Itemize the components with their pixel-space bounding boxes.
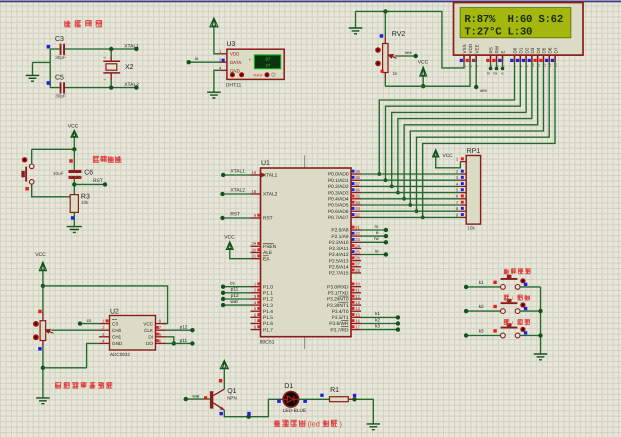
power arrow (U3) (210, 18, 218, 27)
svg-text:e: e (502, 72, 504, 76)
wire U3 GND to ground (214, 70, 220, 92)
U1 pin 39 P0.0/AD0 (351, 173, 361, 175)
wire VCC to button and C6 (32, 149, 75, 164)
svg-text:XTAL2: XTAL2 (263, 192, 278, 198)
svg-text:VDD: VDD (230, 52, 240, 57)
svg-text:P2.7/A15: P2.7/A15 (329, 271, 349, 277)
LCD display LM016L (454, 3, 584, 56)
svg-text:P1.2: P1.2 (263, 297, 273, 303)
U1 pin 23 P2.2/A10 (351, 241, 361, 243)
svg-text:DI: DI (148, 335, 153, 340)
svg-text:PSEN: PSEN (263, 244, 277, 250)
U1 pin 14 P3.4/T0 (351, 310, 361, 312)
U1 pin 38 P0.1/AD1 (351, 179, 361, 181)
junction at ground rail (383, 9, 387, 13)
U3 pin 2 DATA (220, 61, 227, 63)
U1 pin 6 P1.5 (251, 316, 261, 318)
U1 pin 7 P1.6 (251, 323, 261, 325)
svg-text:VSS: VSS (462, 44, 467, 53)
svg-text:k3: k3 (479, 328, 484, 333)
svg-text:P1.6: P1.6 (263, 321, 273, 327)
svg-text:27: 27 (265, 64, 271, 69)
svg-text:VCC: VCC (68, 123, 79, 129)
svg-text:P2.2/A10: P2.2/A10 (329, 240, 349, 246)
wire D6 to P0.6 (417, 62, 550, 211)
U1 pin 25 P2.4/A12 (351, 254, 361, 256)
wire P0.4 to RP1 pin 6 (361, 198, 460, 200)
U2 pin 8 VCC (156, 323, 167, 325)
svg-text:D7: D7 (553, 47, 558, 53)
svg-text:P1.4: P1.4 (263, 309, 273, 315)
wire VDD down to VCC rail (385, 62, 470, 86)
svg-text:P1.0: P1.0 (263, 284, 273, 290)
svg-text:P0.2/AD2: P0.2/AD2 (328, 184, 349, 190)
terminal k3 (P3.7) (361, 329, 398, 331)
svg-text:D4: D4 (536, 47, 541, 53)
U1 pin 11 P3.1/TXD (351, 292, 361, 294)
pot wiper to U2 CH0 (46, 330, 54, 334)
U1 pin 32 P0.7/AD7 (351, 216, 361, 218)
svg-text:RST: RST (93, 178, 103, 184)
U1 pin 2 P1.1 (251, 292, 261, 294)
svg-text:CH1: CH1 (112, 335, 122, 340)
svg-text:XTAL1: XTAL1 (124, 43, 139, 49)
svg-text:21: 21 (355, 225, 360, 230)
svg-text:): ) (340, 420, 342, 429)
RP1 pin 1 (460, 161, 466, 163)
svg-text:k1: k1 (375, 311, 380, 316)
U2 pin 7 CLK (156, 329, 167, 331)
push button k2 (466, 310, 500, 312)
svg-text:P3.5/T1: P3.5/T1 (332, 315, 349, 321)
svg-text:R1: R1 (330, 387, 339, 394)
svg-text:VDD: VDD (468, 43, 473, 53)
U1 pin 21 P2.0/A8 (351, 229, 361, 231)
svg-text:16: 16 (355, 318, 360, 323)
U1 pin 29 PSEN (251, 245, 261, 247)
svg-text:2: 2 (103, 57, 107, 59)
svg-text:28: 28 (355, 268, 360, 273)
U1 pin 31 EA (251, 258, 261, 260)
svg-text:DHT11: DHT11 (226, 83, 242, 89)
terminal p11 (P1.1) (223, 292, 250, 294)
svg-text:CH0: CH0 (112, 328, 122, 333)
wire P0.3 to RP1 pin 5 (361, 192, 460, 194)
svg-text:P1.5: P1.5 (263, 315, 273, 321)
svg-text:p12: p12 (231, 293, 239, 298)
svg-text:31: 31 (252, 254, 257, 259)
pot (humidity sensor) (42, 286, 44, 312)
svg-text:37: 37 (355, 181, 360, 186)
svg-text:D0: D0 (513, 47, 518, 53)
stray line above U1 (304, 155, 306, 168)
power arrow (Q1) (220, 360, 228, 368)
svg-text:38: 38 (355, 175, 360, 180)
svg-text:VCC: VCC (35, 252, 46, 258)
svg-text:P0.3/AD3: P0.3/AD3 (328, 190, 349, 196)
svg-text:ADC0832: ADC0832 (110, 352, 130, 357)
svg-text:vee: vee (480, 88, 488, 93)
wire R1 to ground (353, 399, 373, 423)
U1 pin 15 P3.5/T1 (351, 316, 361, 318)
wire U2 CLK to p12 terminal (166, 329, 192, 331)
svg-text:29: 29 (252, 241, 257, 246)
title 水泵模拟（led代替） (water pump sim) (274, 420, 306, 427)
wire D3 to P0.3 (398, 62, 532, 193)
svg-text:1k: 1k (393, 71, 399, 76)
svg-text:T:27°C L:30: T:27°C L:30 (464, 26, 532, 38)
svg-text:p12: p12 (180, 325, 188, 330)
svg-text:35: 35 (355, 194, 360, 199)
terminal io (P2.4) (361, 254, 386, 256)
U1 pin 30 ALE (251, 252, 261, 254)
svg-text:17: 17 (355, 325, 360, 330)
svg-text:GND: GND (112, 341, 123, 346)
U3 pin 4 GND (220, 69, 227, 71)
ground (reset section) (67, 227, 82, 233)
U1 pin 8 P1.7 (251, 329, 261, 331)
svg-text:D3: D3 (530, 47, 535, 53)
svg-text:80C51: 80C51 (260, 339, 275, 345)
svg-text:D1: D1 (519, 47, 524, 53)
svg-text:XTAL2: XTAL2 (230, 187, 245, 193)
svg-text:k3: k3 (375, 323, 380, 328)
svg-text:25: 25 (355, 249, 360, 254)
svg-text:P1.3: P1.3 (263, 303, 273, 309)
wire D5 to P0.5 (410, 62, 543, 205)
svg-text:DATA: DATA (230, 60, 241, 65)
U1 pin 9 RST (251, 217, 261, 219)
label for k2 (504, 295, 510, 301)
transistor Q1 NPN (210, 391, 213, 408)
U1 pin 33 P0.6/AD6 (351, 210, 361, 212)
svg-text:U1: U1 (261, 160, 270, 167)
terminals rs rw e below LCD (491, 62, 503, 69)
wire D7 to P0.7 (423, 62, 555, 217)
U1 pin 19 XTAL1 (251, 174, 261, 176)
svg-text:P2.6/A14: P2.6/A14 (329, 264, 349, 270)
svg-text:io: io (195, 56, 199, 61)
junction node at crystal bottom (109, 85, 113, 89)
svg-text:D5: D5 (542, 47, 547, 53)
svg-text:k2: k2 (375, 317, 380, 322)
wire D4 to P0.4 (404, 62, 538, 199)
svg-text:P0.7/AD7: P0.7/AD7 (328, 215, 349, 221)
svg-text:P3.4/T0: P3.4/T0 (332, 309, 349, 315)
wire D1 to P0.1 (386, 62, 521, 180)
svg-text:26: 26 (355, 256, 360, 261)
node marker (blue) below R3 (71, 216, 75, 220)
wire D2 to P0.2 (392, 62, 526, 186)
wire U2 DO to p11 terminal (166, 342, 192, 344)
U1 pin 3 P1.2 (251, 298, 261, 300)
U3 pin 1 VDD (220, 53, 227, 55)
svg-text:CLK: CLK (144, 328, 154, 333)
pot bottom to ground (42, 341, 44, 348)
svg-text:39: 39 (355, 169, 360, 174)
svg-text:%RH: %RH (253, 72, 262, 77)
svg-text:p11: p11 (180, 338, 188, 343)
push button k1 (466, 286, 500, 288)
terminal XTAL1 (134, 47, 138, 51)
svg-text:cs: cs (87, 318, 92, 323)
U1 pin 35 P0.4/AD4 (351, 198, 361, 200)
svg-text:X2: X2 (125, 64, 134, 71)
terminal io (U3 data) (189, 61, 220, 63)
terminal wat (P1.3) (223, 304, 250, 306)
label for k3 (504, 320, 509, 325)
svg-text:XTAL2: XTAL2 (124, 82, 139, 88)
wire Q1 emitter to D1 (224, 399, 283, 416)
ground (buttons) (534, 354, 548, 360)
svg-text:27: 27 (355, 262, 360, 267)
wire C3 right to XTAL1 terminal (65, 48, 136, 50)
svg-text:wat: wat (192, 394, 200, 399)
title 晶振电路 (crystal oscillator circuit) (64, 20, 102, 27)
title 湿度传感器模拟 (humidity sensor sim) (55, 382, 112, 388)
wire D1 to R1 (299, 398, 330, 400)
svg-text:13: 13 (355, 300, 360, 305)
wire P0.0 to RP1 pin 2 (361, 173, 460, 175)
svg-text:D1: D1 (284, 383, 293, 390)
svg-text:E: E (501, 50, 506, 53)
junction node at crystal top (109, 47, 113, 51)
terminal rw (P2.2) (361, 241, 386, 243)
svg-text:p11: p11 (231, 287, 239, 292)
U1 pin 24 P2.3/A11 (351, 247, 361, 249)
terminal rs (P2.0) (361, 229, 386, 231)
U1 pin 10 P3.0/RXD (351, 286, 361, 288)
wire P0.2 to RP1 pin 4 (361, 185, 460, 187)
title 复位电路 (reset circuit) (93, 156, 122, 163)
wire P0.6 to RP1 pin 8 (361, 210, 460, 212)
RP1 pin 5 (460, 192, 466, 194)
terminal XTAL2 (134, 85, 138, 89)
svg-text:P1.7: P1.7 (263, 327, 273, 333)
label for k1 (504, 269, 531, 275)
wire C3 left lead to vertical rail (50, 49, 59, 88)
svg-text:U3: U3 (227, 41, 236, 48)
capacitor C6 10uF (73, 149, 75, 170)
svg-text:P3.0/RXD: P3.0/RXD (327, 284, 349, 290)
U1 pin 4 P1.3 (251, 304, 261, 306)
RV2 wiper to vee terminal (389, 55, 397, 59)
svg-text:30: 30 (252, 247, 257, 252)
node marker C5 left (blue) (47, 81, 51, 85)
svg-text:11: 11 (355, 288, 360, 293)
svg-text:P0.5/AD5: P0.5/AD5 (328, 203, 349, 209)
svg-text:P3.3/INT1: P3.3/INT1 (327, 303, 349, 309)
svg-text:DO: DO (146, 341, 153, 346)
wire k2 to common (520, 310, 541, 312)
U1 pin 22 P2.1/A9 (351, 235, 361, 237)
U1 pin 27 P2.6/A14 (351, 266, 361, 268)
common wire of buttons to ground (540, 287, 542, 354)
U1 pin 5 P1.4 (251, 310, 261, 312)
terminal vee (VEE pin) (475, 62, 477, 87)
terminal wat to Q1 base (186, 398, 210, 400)
ground (LCD/RV2) (355, 11, 357, 27)
U1 pin 16 P3.6/WR (351, 323, 361, 325)
terminal e (P2.1) (361, 235, 386, 237)
svg-text:87: 87 (265, 57, 271, 62)
wire button bottom to R3 (32, 184, 75, 197)
svg-text:15: 15 (355, 312, 360, 317)
svg-text:rw: rw (374, 236, 380, 241)
svg-text:P2.5/A13: P2.5/A13 (329, 258, 349, 264)
wire U2 DI joins DO (166, 337, 174, 344)
wire D0 to P0.0 (379, 62, 514, 174)
U1 pin 17 P3.7/RD (351, 329, 361, 331)
svg-text:io: io (375, 248, 379, 253)
svg-text:Q1: Q1 (227, 388, 236, 395)
svg-text:P3.6/WR: P3.6/WR (329, 321, 349, 327)
sheet border (top blue line) (0, 1, 621, 3)
svg-text:36: 36 (355, 188, 360, 193)
svg-text:12: 12 (355, 294, 360, 299)
svg-text:RST: RST (263, 216, 273, 222)
svg-text:e: e (376, 230, 379, 235)
wire XTAL1 terminal to U1 (223, 174, 250, 176)
terminal k2 (P3.6) (361, 323, 398, 325)
svg-text:D6: D6 (548, 47, 553, 53)
ground (crystal section) (26, 75, 40, 81)
svg-text:rs: rs (487, 72, 490, 76)
RV2 bottom to VCC rail (384, 73, 386, 79)
ground (U2 section) (36, 398, 50, 404)
svg-text:LED-BLUE: LED-BLUE (283, 408, 306, 414)
RP1 pin 7 (460, 204, 466, 206)
U2 pin 1 CS (99, 323, 110, 325)
svg-text:P1.1: P1.1 (263, 291, 273, 297)
svg-text:10k: 10k (467, 226, 475, 231)
wire XTAL2 terminal to U1 (223, 193, 251, 195)
terminal k1 (P3.5) (361, 316, 398, 318)
RP1 pin 4 (460, 185, 466, 187)
adc U2 ADC0832 (110, 316, 156, 351)
svg-text:RV2: RV2 (392, 31, 406, 38)
U2 pin 3 CH1 (99, 336, 110, 338)
svg-text:C6: C6 (84, 170, 93, 177)
svg-text:rw: rw (493, 72, 497, 76)
node marker (red square) below reset button (25, 187, 29, 191)
svg-text:10: 10 (355, 282, 360, 287)
svg-text:VCC: VCC (143, 321, 153, 326)
svg-text:19: 19 (252, 170, 257, 175)
svg-text:▸: ▸ (249, 58, 251, 62)
node marker C3 left (blue) (47, 45, 51, 49)
svg-text:XTAL1: XTAL1 (230, 168, 245, 174)
svg-text:XTAL1: XTAL1 (263, 173, 278, 179)
svg-text:C5: C5 (55, 74, 64, 81)
svg-text:10uF: 10uF (53, 171, 64, 176)
svg-text:10k: 10k (81, 200, 89, 205)
U1 pin 1 P1.0 (251, 286, 261, 288)
svg-text:NPN: NPN (227, 395, 237, 400)
U3 buttons (red circles) (230, 72, 235, 77)
svg-text:P2.3/A11: P2.3/A11 (329, 246, 349, 252)
RV2 marker blue (380, 34, 384, 38)
microcontroller U1 80C51 (261, 168, 352, 337)
terminal p12 (P1.2) (223, 298, 250, 300)
svg-text:VEE: VEE (474, 44, 479, 53)
svg-text:P0.4/AD4: P0.4/AD4 (328, 197, 349, 203)
U2 pin 5 DI (156, 336, 167, 338)
ground (R1) (367, 424, 381, 430)
svg-text:24: 24 (355, 243, 360, 248)
svg-text:wat: wat (230, 299, 238, 304)
VCC rail to U2 pin 8 (43, 286, 168, 324)
U2 pin 2 CH0 (99, 329, 110, 331)
svg-text:22: 22 (355, 231, 360, 236)
U1 pin 12 P3.2/INT0 (351, 298, 361, 300)
ground (U3) (207, 92, 221, 98)
wire P0.5 to RP1 pin 7 (361, 204, 460, 206)
U1 pin 18 XTAL2 (251, 193, 261, 195)
terminal cs (U2 CS) (80, 323, 99, 325)
svg-text:P0.6/AD6: P0.6/AD6 (328, 209, 349, 215)
capacitor C5 (60, 82, 62, 93)
svg-text:U2: U2 (110, 309, 119, 316)
resistor pack RP1 10k (466, 156, 480, 225)
wire RST terminal to U1 (223, 217, 251, 219)
svg-text:(led: (led (308, 420, 320, 429)
RP1 pin 8 (460, 210, 466, 212)
wire U2 GND to pot ground rail (43, 343, 99, 367)
svg-text:P3.7/RD: P3.7/RD (330, 327, 349, 333)
svg-text:VCC: VCC (224, 235, 235, 241)
U1 pin 26 P2.5/A13 (351, 260, 361, 262)
svg-text:R:87% H:60 S:62: R:87% H:60 S:62 (464, 14, 563, 26)
svg-text:k2: k2 (479, 304, 484, 309)
svg-text:D2: D2 (524, 47, 529, 53)
svg-text:30pF: 30pF (55, 55, 66, 60)
svg-text:VCC: VCC (443, 153, 454, 159)
svg-text:P0.1/AD1: P0.1/AD1 (328, 178, 349, 184)
wire k1 to common (520, 286, 541, 288)
wire k3 to common (520, 335, 541, 337)
RP1 pin 2 (460, 173, 466, 175)
svg-text:P3.1/TXD: P3.1/TXD (328, 291, 349, 297)
svg-text:C3: C3 (55, 36, 64, 43)
svg-text:EA: EA (263, 256, 270, 262)
svg-text:CS: CS (112, 321, 118, 326)
resistor R3 10k (70, 195, 78, 213)
U1 pin 28 P2.7/A15 (351, 272, 361, 274)
svg-text:30pF: 30pF (55, 93, 66, 98)
push button (reset) (29, 164, 34, 169)
crystal X2 (110, 49, 112, 56)
U1 pin 37 P0.2/AD2 (351, 185, 361, 187)
svg-text:P3.2/INT0: P3.2/INT0 (327, 297, 349, 303)
svg-text:14: 14 (355, 306, 360, 311)
svg-text:P0.0/AD0: P0.0/AD0 (328, 172, 349, 178)
wire C5 leads (50, 87, 136, 89)
wire to RST terminal (74, 183, 105, 185)
svg-text:1: 1 (103, 79, 107, 81)
svg-text:32: 32 (355, 212, 360, 217)
wire VSS to ground rail (356, 11, 465, 68)
svg-text:ALE: ALE (263, 250, 272, 256)
RP1 pin 9 (460, 216, 466, 218)
svg-text:34: 34 (355, 200, 360, 205)
U2 pin 4 GND (99, 342, 110, 344)
wire P0.1 to RP1 pin 3 (361, 179, 460, 181)
svg-text:P2.4/A12: P2.4/A12 (329, 252, 349, 258)
svg-text:vee: vee (405, 50, 413, 55)
stray line below U1 (304, 337, 306, 349)
RV2 interactive buttons (375, 47, 381, 53)
